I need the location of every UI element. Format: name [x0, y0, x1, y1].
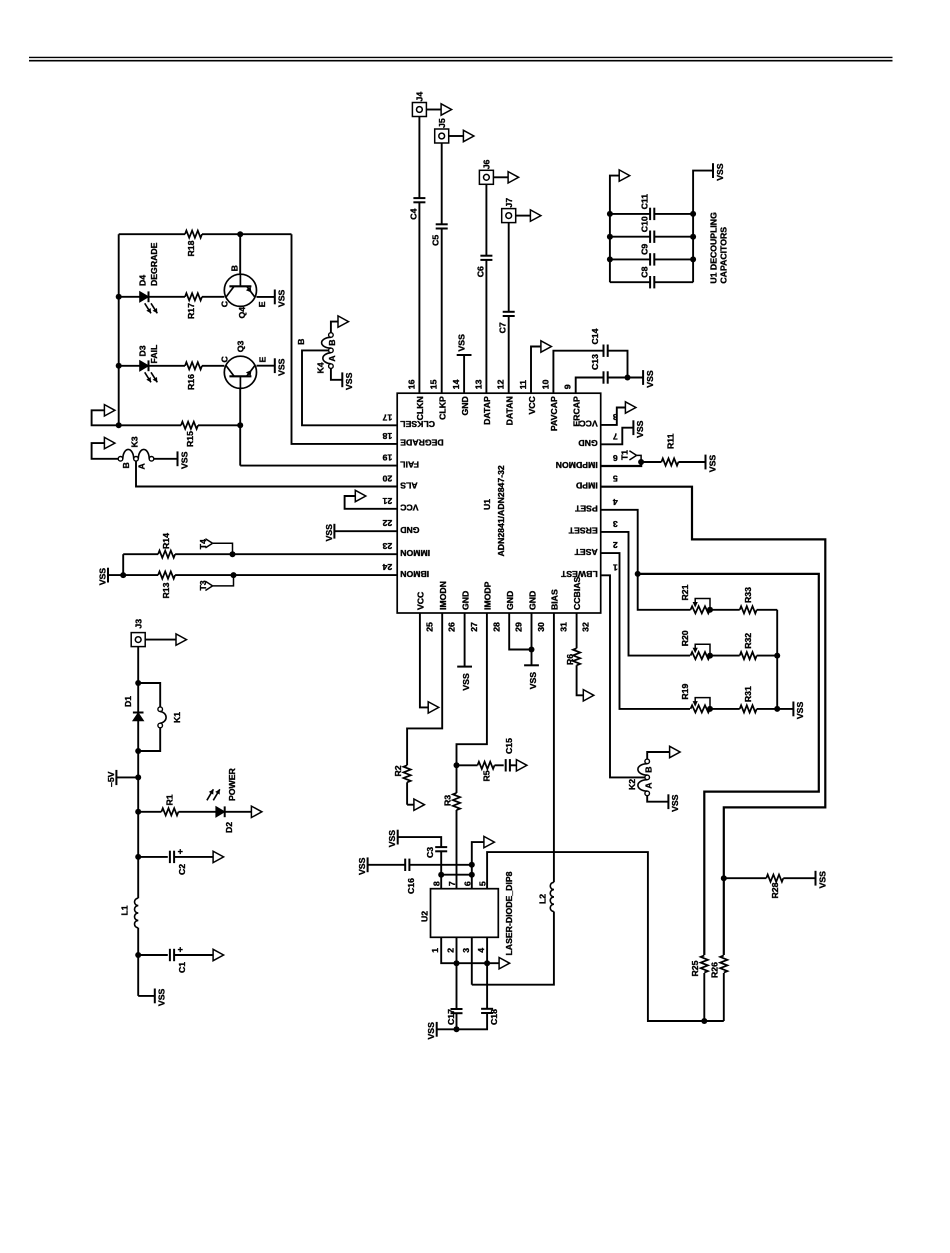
resistor R13 [108, 572, 175, 599]
pin 30 GND label [527, 591, 546, 632]
svg-text:R11: R11 [665, 433, 675, 449]
svg-text:12: 12 [496, 379, 506, 389]
arrow at J6 [493, 172, 518, 183]
wire laser pin 3 [471, 937, 473, 984]
svg-text:R2: R2 [393, 765, 403, 776]
diode D1 [123, 696, 144, 721]
capacitor C5 [431, 224, 448, 246]
svg-text:IMODN: IMODN [438, 581, 448, 610]
ground VSS at K2 [668, 794, 680, 812]
relay K2 [627, 759, 654, 796]
laser diode U2 body [420, 871, 514, 955]
wire L2 to laser pin 3 [472, 912, 554, 985]
wire pin 28 IMODP [454, 613, 487, 793]
svg-text:17: 17 [382, 412, 392, 422]
svg-text:R5: R5 [481, 770, 491, 781]
capacitor C13 [590, 354, 608, 384]
test point T4 [198, 539, 232, 555]
svg-text:20: 20 [382, 474, 392, 484]
wire J7 to pin [508, 223, 510, 394]
capacitor C1 [138, 945, 213, 973]
wire pin 23 IMMON [175, 551, 397, 557]
capacitor C9 [610, 244, 693, 266]
wire K4 to VSS [331, 368, 342, 379]
svg-text:ADN2841/ADN2847-32: ADN2841/ADN2847-32 [496, 465, 506, 556]
ground VSS at C3 [387, 830, 398, 848]
svg-text:C15: C15 [504, 738, 514, 754]
svg-text:VCC: VCC [399, 503, 418, 513]
wire laser pin 2 C17 branch [454, 937, 460, 1032]
svg-text:VSS: VSS [645, 370, 655, 388]
svg-text:21: 21 [382, 496, 392, 506]
inductor L1 [120, 898, 139, 928]
svg-text:POWER: POWER [227, 767, 237, 801]
svg-text:U2: U2 [420, 911, 430, 922]
svg-text:16: 16 [406, 379, 416, 389]
capacitor C8 [610, 266, 693, 288]
svg-text:VSS: VSS [461, 673, 471, 691]
svg-text:R31: R31 [743, 686, 753, 702]
svg-text:19: 19 [382, 453, 392, 463]
ground VSS pins 29 30 [524, 665, 539, 689]
wire J5 to pin [441, 143, 443, 393]
resistor R17 [149, 293, 225, 319]
ground VSS pin 7 [633, 420, 645, 438]
wire pin 6 IMPDMON [601, 459, 644, 466]
svg-text:R16: R16 [186, 374, 196, 390]
svg-text:GND: GND [505, 591, 515, 610]
ground VSS at C17 [426, 1022, 437, 1040]
svg-text:J5: J5 [437, 118, 447, 128]
svg-text:R14: R14 [161, 533, 171, 549]
wire pins 29 30 GND [509, 613, 534, 665]
ground VSS pin 22 [324, 524, 335, 542]
arrow at R2 [414, 799, 425, 810]
wire C14 to ground node [608, 351, 628, 378]
ground VSS at Q3 [275, 358, 287, 376]
svg-text:FAIL: FAIL [149, 344, 159, 364]
wire R33 to rail [774, 610, 780, 712]
laser pin 3 label [461, 948, 471, 953]
resistor R25 [690, 956, 708, 1022]
svg-text:ALS: ALS [400, 480, 418, 490]
svg-text:+: + [178, 847, 183, 857]
relay K4 [315, 333, 337, 374]
svg-text:C1: C1 [177, 962, 187, 973]
svg-text:J6: J6 [482, 159, 492, 169]
svg-text:D4: D4 [138, 275, 148, 286]
wire decoupling right rail [690, 171, 713, 283]
svg-text:GND: GND [400, 525, 419, 535]
svg-text:GND: GND [578, 438, 597, 448]
svg-text:VSS: VSS [157, 989, 167, 1007]
pin 15 CLKP label [429, 379, 448, 419]
arrow at C1 [213, 949, 224, 960]
capacitor C14 [590, 328, 608, 357]
wire DEGRADE net [292, 234, 398, 444]
wire pin 2 ASET [601, 553, 690, 709]
resistor R2 [393, 765, 414, 804]
ground VSS at Q4 [275, 290, 287, 308]
svg-text:29: 29 [514, 622, 524, 632]
svg-text:K1: K1 [172, 712, 182, 723]
ground VSS at K3 [178, 451, 190, 469]
svg-text:8: 8 [432, 881, 442, 886]
arrow at J5 [449, 130, 474, 141]
wire pin 24 IBMON [175, 572, 397, 578]
transistor Q4 [219, 265, 274, 318]
svg-text:C5: C5 [431, 235, 441, 246]
svg-text:GND: GND [460, 396, 470, 415]
wire J4 to pin [418, 117, 420, 394]
potentiometer R19 [680, 683, 713, 712]
svg-text:B: B [644, 767, 654, 773]
capacitor C3 [425, 847, 447, 858]
capacitor C6 [475, 256, 492, 278]
wire pin 4 PSET [601, 510, 691, 610]
svg-text:C: C [219, 300, 229, 307]
ground VSS at R13 [97, 568, 108, 586]
svg-text:C7: C7 [498, 322, 508, 333]
svg-text:R21: R21 [680, 584, 690, 600]
svg-text:VCC: VCC [579, 419, 598, 429]
resistor R18 [119, 231, 292, 257]
resistor R14 [123, 533, 175, 558]
laser pin 6 label [462, 881, 472, 886]
wire C13 to VSS [608, 375, 643, 381]
wire ALS net [136, 461, 397, 486]
capacitor C4 [408, 198, 425, 220]
svg-text:C16: C16 [406, 878, 416, 894]
wire VCC bus [116, 234, 122, 428]
arrow at J4 [426, 104, 451, 115]
svg-text:C18: C18 [489, 1009, 499, 1025]
page rule top [29, 57, 893, 60]
ground VSS at K4 [342, 372, 354, 390]
resistor R3 [442, 793, 460, 889]
pin 10 PAVCAP label [540, 379, 559, 431]
pin 28 IMODP label [483, 581, 502, 631]
svg-text:U1: U1 [482, 499, 492, 510]
pin 22 GND label [382, 518, 419, 535]
svg-text:A: A [137, 463, 147, 470]
pin 9 ERCAP label [563, 384, 582, 426]
svg-text:ERSET: ERSET [568, 526, 598, 536]
svg-text:R32: R32 [743, 633, 753, 649]
arrow VCC decoupling [619, 170, 630, 181]
svg-text:B: B [230, 265, 240, 271]
wire pin 5 IMPD route [601, 487, 826, 955]
svg-text:VSS: VSS [357, 857, 367, 875]
svg-text:VCC: VCC [416, 591, 426, 610]
wire PSET junction route [638, 574, 819, 955]
svg-text:IBMON: IBMON [400, 569, 429, 579]
svg-text:FAIL: FAIL [400, 459, 420, 469]
capacitor C2 [138, 847, 213, 875]
wire pin 26 IMODN [407, 613, 442, 765]
svg-text:2: 2 [613, 540, 618, 550]
svg-text:CCBIAS: CCBIAS [572, 576, 582, 610]
pin 26 IMODN label [438, 581, 457, 632]
svg-text:27: 27 [469, 622, 479, 632]
svg-text:R18: R18 [186, 240, 196, 256]
svg-text:5: 5 [613, 474, 618, 484]
LED D4 DEGRADE [119, 242, 159, 313]
wire pin 10 PAVCAP [553, 351, 603, 394]
arrow at laser cathode row [499, 958, 510, 969]
wire pin 22 GND [334, 530, 397, 532]
svg-text:R28: R28 [770, 882, 780, 898]
svg-text:R1: R1 [164, 794, 174, 805]
svg-text:VSS: VSS [277, 290, 287, 308]
svg-text:15: 15 [429, 379, 439, 389]
svg-text:VSS: VSS [344, 372, 354, 390]
svg-text:J7: J7 [504, 198, 514, 208]
ground VSS at C16 [357, 857, 368, 875]
svg-text:D2: D2 [224, 822, 234, 833]
arrow at J3 [145, 634, 186, 645]
resistor R33 [710, 587, 777, 614]
pin 24 IBMON label [382, 562, 429, 579]
svg-text:23: 23 [382, 541, 392, 551]
pin 8 VCC label [579, 412, 618, 429]
svg-text:A: A [327, 355, 337, 362]
svg-text:K2: K2 [627, 779, 637, 790]
wire pin 32 CCBIAS [576, 613, 578, 648]
svg-text:C8: C8 [639, 266, 649, 277]
svg-text:R15: R15 [185, 431, 195, 447]
svg-text:C3: C3 [425, 847, 435, 858]
svg-text:Q4: Q4 [237, 307, 247, 319]
arrow at C2 [213, 851, 224, 862]
wire Q4 base [239, 234, 241, 274]
pin 14 GND label [451, 379, 470, 415]
resistor R28 [724, 875, 816, 899]
pin 23 IMMON label [382, 541, 430, 558]
svg-text:VSS: VSS [97, 568, 107, 586]
svg-text:GND: GND [527, 591, 537, 610]
wire K2 contact B to arrow [647, 752, 669, 759]
pin 7 GND label [578, 431, 617, 448]
svg-text:C13: C13 [590, 354, 600, 370]
svg-text:C11: C11 [639, 194, 649, 210]
resistor R26 [709, 956, 727, 1022]
wire R31 to VSS [777, 708, 793, 710]
svg-text:31: 31 [558, 622, 568, 632]
wire rail to VSS [138, 995, 155, 997]
power tap -5V [106, 770, 138, 787]
resistor R16 [149, 362, 225, 390]
ground VSS power rail [155, 989, 167, 1007]
svg-text:PAVCAP: PAVCAP [549, 396, 559, 431]
wire K2 to VSS [647, 796, 668, 802]
svg-text:VSS: VSS [528, 672, 538, 690]
svg-text:18: 18 [382, 431, 392, 441]
svg-text:J4: J4 [415, 92, 425, 102]
wire -5V rail [135, 647, 141, 996]
svg-text:GND: GND [460, 591, 470, 610]
svg-text:VSS: VSS [707, 455, 717, 473]
wire K4 contact B to arrow [331, 322, 338, 333]
wire laser pin 8 C3 branch [438, 851, 444, 888]
resistor R1 [138, 794, 216, 815]
svg-text:13: 13 [473, 379, 483, 389]
label U1 decoupling capacitors [709, 212, 729, 284]
capacitor C15 [504, 738, 517, 772]
svg-text:T1: T1 [620, 450, 630, 460]
pin 27 GND label [460, 591, 479, 632]
svg-text:T3: T3 [198, 580, 208, 590]
svg-text:Q3: Q3 [235, 341, 245, 353]
capacitor C11 [610, 194, 693, 220]
wire pin 11 VCC [531, 347, 541, 394]
svg-text:D3: D3 [138, 345, 148, 356]
svg-text:R13: R13 [161, 582, 171, 598]
wire laser pin 5 MPD route [487, 852, 724, 1024]
svg-text:R17: R17 [186, 303, 196, 319]
svg-text:IMODP: IMODP [483, 581, 493, 610]
svg-text:2: 2 [446, 948, 456, 953]
wire laser pin 1 row [441, 937, 499, 966]
svg-text:22: 22 [382, 518, 392, 528]
wire decoupling left rail [607, 176, 619, 283]
pin 6 IMPDMON label [556, 453, 618, 470]
ground VSS at R31 [793, 702, 805, 720]
svg-text:R3: R3 [442, 795, 452, 806]
svg-text:K4: K4 [315, 362, 325, 373]
wire pin 9 ERCAP [576, 378, 604, 394]
transistor Q3 [219, 341, 274, 389]
svg-text:IMPDMON: IMPDMON [556, 460, 598, 470]
pin 29 GND label [505, 591, 524, 632]
laser pin 8 label [432, 881, 442, 886]
svg-text:CLKSEL: CLKSEL [400, 419, 435, 429]
svg-text:4: 4 [476, 948, 486, 953]
svg-text:IMPD: IMPD [576, 481, 598, 491]
wire pin 1 LBWEST [601, 575, 645, 777]
test point T3 [198, 575, 233, 590]
svg-text:R26: R26 [709, 962, 719, 978]
wire pin 21 VCC [345, 496, 398, 509]
arrow VCC pin 11 [541, 341, 552, 352]
svg-text:C2: C2 [177, 864, 187, 875]
pin 2 ASET label [574, 540, 618, 557]
ground VSS pin 27 [457, 667, 472, 691]
svg-text:VSS: VSS [670, 794, 680, 812]
wire K3 to VSS [154, 458, 178, 460]
resistor R31 [710, 686, 777, 713]
wire laser pin 8 to pin 6 [441, 872, 475, 878]
laser pin 2 label [446, 948, 456, 953]
svg-text:R33: R33 [743, 587, 753, 603]
svg-text:3: 3 [461, 948, 471, 953]
svg-text:BIAS: BIAS [550, 589, 560, 610]
svg-text:B: B [121, 462, 131, 468]
capacitor C18 [457, 1009, 500, 1030]
IC U1 ADN2841/ADN2847-32 body [397, 393, 601, 613]
relay K3 [118, 436, 154, 469]
svg-text:B: B [296, 339, 306, 345]
arrow at K3 [92, 437, 119, 458]
node B [296, 339, 306, 345]
svg-text:DATAN: DATAN [505, 396, 515, 425]
svg-text:B: B [327, 340, 337, 346]
svg-text:VSS: VSS [715, 163, 725, 181]
svg-text:C10: C10 [639, 216, 649, 232]
pin 20 ALS label [382, 474, 417, 491]
wire VSS to C16 [368, 864, 406, 866]
svg-text:C4: C4 [408, 208, 418, 219]
pin 11 VCC label [518, 380, 537, 415]
pin 31 BIAS label [550, 589, 569, 632]
laser pin 4 label [476, 948, 486, 953]
arrow VCC pin 8 [625, 402, 636, 413]
pin 19 FAIL label [382, 453, 419, 470]
capacitor C16 [405, 859, 416, 894]
svg-text:1: 1 [613, 562, 618, 572]
connector J4 [412, 92, 426, 117]
resistor R5 [457, 762, 504, 782]
wire J6 to pin [485, 184, 487, 393]
capacitor C17 [446, 1009, 463, 1029]
laser pin 7 label [447, 881, 457, 886]
arrow VCC pin 21 [355, 490, 366, 501]
svg-text:J3: J3 [133, 619, 143, 629]
wire R14 to R13 [120, 554, 126, 578]
svg-text:VSS: VSS [179, 451, 189, 469]
pin 16 CLKN label [406, 379, 425, 420]
svg-text:VSS: VSS [635, 420, 645, 438]
connector J5 [435, 118, 449, 143]
pin 13 DATAP label [473, 379, 492, 424]
arrow at D2 [251, 806, 262, 817]
svg-text:DEGRADE: DEGRADE [400, 438, 444, 448]
pin 4 PSET label [574, 497, 617, 514]
resistor R6 [565, 648, 583, 695]
svg-text:VSS: VSS [457, 334, 467, 352]
svg-text:VSS: VSS [387, 830, 397, 848]
svg-text:R20: R20 [680, 630, 690, 646]
laser pin 5 label [478, 881, 488, 886]
pin 17 CLKSEL label [382, 412, 435, 429]
svg-text:C14: C14 [590, 328, 600, 344]
svg-text:VSS: VSS [795, 702, 805, 720]
svg-text:CAPACITORS: CAPACITORS [719, 227, 729, 284]
svg-text:24: 24 [382, 562, 392, 572]
svg-text:11: 11 [518, 380, 528, 389]
pin 32 CCBIAS label [572, 576, 591, 631]
arrow at J7 [516, 210, 541, 221]
wire pin 7 GND [601, 428, 634, 445]
LED D3 FAIL [119, 344, 159, 382]
svg-text:5: 5 [478, 881, 488, 886]
capacitor C7 [498, 312, 515, 334]
svg-text:C6: C6 [475, 266, 485, 277]
ground VSS at R11 [706, 455, 718, 473]
svg-text:PSET: PSET [574, 504, 597, 514]
svg-text:7: 7 [613, 431, 618, 441]
wire C3 to VSS [398, 837, 442, 847]
svg-text:ASET: ASET [574, 547, 598, 557]
svg-text:1: 1 [430, 948, 440, 953]
pin 18 DEGRADE label [382, 431, 443, 448]
svg-text:CLKP: CLKP [438, 396, 448, 420]
wire laser pin 4 C18 branch [486, 937, 488, 1009]
svg-text:R25: R25 [690, 960, 700, 976]
wire pin 27 GND [464, 613, 466, 667]
svg-text:D1: D1 [123, 696, 133, 707]
svg-text:C17: C17 [446, 1009, 456, 1025]
